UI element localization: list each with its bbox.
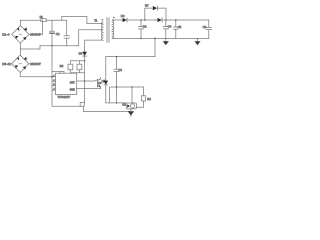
core: [107, 18, 109, 43]
svg-text:D1~4: D1~4: [2, 33, 10, 37]
wire aux tap riser: [79, 30, 103, 46]
node line A bus: [51, 45, 53, 47]
ground output 2: [197, 38, 199, 41]
wire IC left bus: [50, 20, 55, 90]
wire secondary top: [112, 19, 122, 21]
svg-text:D6: D6: [121, 14, 125, 18]
svg-text:D9: D9: [98, 81, 102, 85]
winding secondary right: [112, 20, 114, 39]
wire IC bottom return: [52, 90, 80, 106]
node bypass left: [144, 19, 146, 21]
resistor R3 clamp: [68, 64, 73, 70]
wire opto top pin: [131, 87, 133, 103]
phase dot right: [113, 17, 114, 18]
svg-text:T1: T1: [94, 18, 98, 22]
svg-text:C4: C4: [168, 25, 172, 29]
capacitor C5: [174, 20, 178, 38]
capacitor C2: [138, 20, 143, 38]
wire output rail: [127, 19, 208, 21]
bridge rectifier BR2: [12, 55, 29, 72]
node bus pin1: [51, 76, 53, 78]
svg-text:R3: R3: [60, 64, 64, 68]
resistor Rs sense: [80, 103, 84, 107]
wire line A: [40, 45, 79, 47]
diode D7: [153, 6, 157, 10]
node opto top: [131, 86, 133, 88]
capacitor C4: [163, 20, 168, 38]
wire primary bottom: [85, 40, 103, 52]
svg-text:U2: U2: [122, 103, 126, 107]
wire IC pin stubs: [52, 81, 55, 90]
bridge rectifier BR1: [12, 26, 29, 43]
wire bridge1 top lead: [19, 20, 21, 25]
svg-text:TOP224Y: TOP224Y: [57, 95, 70, 99]
wire bridge1 bottom to bridge2 top: [19, 43, 21, 55]
wire fb col1: [105, 57, 107, 81]
node fb riser: [154, 38, 156, 40]
label BR2 right: [29, 63, 33, 65]
svg-text:C1: C1: [56, 32, 60, 36]
node bridge1 mark: [19, 33, 22, 35]
wire primary top jog: [62, 16, 103, 23]
wire bypass branch: [145, 8, 166, 20]
wire minus branch: [20, 46, 40, 49]
wire bridge2 bottom to IC pin1: [20, 73, 55, 77]
diode D8: [158, 18, 162, 22]
capacitor C8: [206, 20, 212, 38]
node bypass right: [165, 19, 167, 21]
node drain-transistor: [84, 80, 86, 82]
diode D6: [123, 18, 127, 22]
node C5: [175, 19, 177, 21]
node drain-clamp top: [84, 60, 86, 62]
node C2: [140, 19, 142, 21]
node bridge2 mark: [19, 63, 22, 65]
wire fb bus bottom: [106, 102, 126, 104]
wire clamp top: [70, 61, 84, 64]
svg-text:1N4007: 1N4007: [30, 62, 41, 66]
node col2: [116, 56, 118, 58]
wire drain column: [84, 56, 86, 103]
diode D5 clamp: [82, 52, 87, 56]
wire feedback ground riser: [106, 38, 155, 56]
transformer T1: [101, 17, 114, 43]
svg-text:D7: D7: [145, 4, 149, 8]
resistor R4: [143, 87, 145, 96]
op-amp U1 PWM IC: [55, 73, 76, 94]
wire fb col1 lower: [105, 85, 107, 103]
svg-text:R4: R4: [147, 97, 151, 101]
svg-text:C8: C8: [203, 25, 207, 29]
svg-text:D5: D5: [79, 52, 83, 56]
svg-text:F1: F1: [40, 15, 44, 19]
svg-text:OUT: OUT: [70, 82, 75, 84]
fuse F1: [41, 19, 46, 22]
capacitor C3 clamp: [77, 64, 82, 70]
svg-text:GND: GND: [70, 90, 75, 92]
wire ground rail: [112, 37, 209, 39]
wire clamp bottom: [70, 70, 84, 73]
wire fb mid horizontal: [110, 87, 144, 103]
diode D9: [104, 81, 109, 85]
node C2 ground: [140, 38, 142, 40]
wire bottom to opto: [83, 106, 129, 111]
phase dot left: [102, 19, 103, 20]
winding primary left: [101, 22, 103, 41]
svg-text:C5: C5: [178, 25, 182, 29]
transistor Q1: [77, 80, 101, 89]
ground output 1: [165, 38, 167, 41]
svg-text:D8~11: D8~11: [2, 62, 11, 66]
wire top rail: [20, 19, 66, 21]
wire fb col2 / capacitor C6: [114, 57, 119, 103]
svg-text:C2: C2: [143, 25, 147, 29]
capacitor C1: [64, 20, 69, 46]
wire bridge1 plus to rail: [29, 20, 42, 34]
wire secondary bottom: [111, 37, 113, 40]
wire bus to IC top: [52, 71, 64, 73]
optocoupler U2: [126, 103, 136, 109]
ground opto: [130, 109, 132, 111]
